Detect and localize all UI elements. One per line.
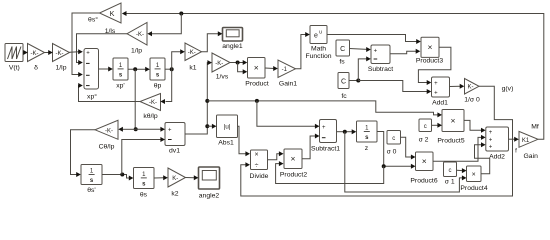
- wire Divide to Product2 input1: [268, 151, 284, 160]
- wire jog to Product input2: [238, 63, 248, 75]
- node fc junction: [356, 79, 360, 83]
- svg-text:c: c: [424, 124, 427, 130]
- wire Subtract to Product3 input2: [391, 49, 421, 54]
- node z junction: [382, 164, 386, 168]
- wire junction to 1/ls: [147, 14, 181, 37]
- svg-text:+: +: [434, 81, 438, 87]
- svg-text:÷: ÷: [255, 162, 259, 169]
- gain delta: [28, 44, 45, 72]
- svg-text:k1: k1: [189, 65, 196, 72]
- block Add1: [432, 77, 450, 107]
- block Product4: [460, 166, 487, 192]
- svg-text:c: c: [449, 168, 452, 174]
- svg-text:c: c: [392, 136, 395, 142]
- block Subtract1: [311, 120, 340, 153]
- svg-text:dv1: dv1: [169, 148, 180, 155]
- svg-text:Product2: Product2: [280, 172, 307, 179]
- block Add2: [486, 127, 509, 160]
- svg-text:V(t): V(t): [9, 65, 20, 72]
- wire thetas-deg K to sum input3: [72, 13, 100, 77]
- svg-text:k2: k2: [171, 191, 178, 198]
- wire z out to Product6 input2: [377, 132, 416, 169]
- wire k1 to angle1: [202, 31, 223, 51]
- svg-text:f: f: [515, 148, 517, 155]
- svg-text:+: +: [86, 50, 90, 56]
- block Abs1: [217, 115, 238, 146]
- svg-text:g(v): g(v): [502, 86, 514, 93]
- svg-text:+: +: [489, 145, 493, 151]
- svg-text:K-: K-: [172, 176, 178, 182]
- svg-text:σ 0: σ 0: [387, 148, 397, 155]
- wire V(t) to delta: [23, 50, 28, 55]
- svg-text:×: ×: [422, 156, 427, 166]
- wire Math to Product3 input1: [327, 35, 421, 45]
- svg-text:+: +: [374, 48, 378, 54]
- gain Gain1: [278, 60, 297, 88]
- svg-text:C: C: [341, 78, 346, 85]
- gain 1/ls (feedback): [105, 23, 147, 55]
- block Subtract: [368, 45, 393, 73]
- gain 1/sigma0: [464, 79, 480, 104]
- wire Gain1 to Math: [296, 32, 310, 69]
- svg-text:-K-: -K-: [105, 128, 113, 134]
- wire v drop to Subtract1 input1: [257, 101, 320, 129]
- wire sigma0 to Product6 input1: [401, 137, 416, 159]
- wire k2 to angle2: [186, 175, 199, 180]
- svg-text:-K-: -K-: [149, 100, 157, 106]
- svg-text:Subtract1: Subtract1: [311, 146, 340, 153]
- wire Subtract1 to z: [337, 129, 357, 134]
- svg-text:Mf: Mf: [531, 124, 539, 131]
- wire sum to xp': [99, 67, 113, 72]
- svg-text:e: e: [314, 33, 318, 40]
- svg-text:+: +: [322, 125, 326, 131]
- svg-text:Divide: Divide: [250, 173, 269, 180]
- block Product2: [280, 149, 307, 179]
- node 1/vs out junction: [236, 61, 240, 65]
- gain Mf: [515, 124, 539, 161]
- gain 1/lp: [53, 44, 70, 72]
- gain ktheta/lp: [140, 94, 161, 121]
- wire zdot to Product4 input2: [345, 132, 467, 192]
- svg-text:+: +: [434, 90, 438, 96]
- wire g(v) long loop to Divide input2: [241, 86, 513, 196]
- svg-text:σ 1: σ 1: [445, 179, 455, 186]
- svg-text:-K-: -K-: [188, 50, 196, 56]
- wire thetas to k2: [154, 175, 168, 180]
- node xp' junction: [133, 67, 137, 71]
- block Product3: [416, 37, 443, 64]
- svg-text:angle2: angle2: [199, 193, 220, 200]
- wire ktheta/lp to sum input4: [78, 83, 140, 102]
- svg-text:Subtract: Subtract: [368, 66, 393, 73]
- svg-text:×: ×: [254, 152, 258, 159]
- wire sigma2 to Product5 input2: [432, 123, 443, 128]
- svg-text:-K-: -K-: [215, 61, 223, 67]
- wire v-line to Product5: [207, 101, 442, 118]
- node thetas' junction: [120, 173, 124, 177]
- gain k2: [168, 168, 186, 198]
- svg-text:Math: Math: [311, 46, 326, 53]
- svg-text:xp°: xp°: [87, 93, 97, 101]
- constant c sigma0: [387, 131, 401, 156]
- integrator thetas': [81, 165, 102, 195]
- svg-text:-1: -1: [282, 67, 288, 73]
- svg-text:u: u: [319, 30, 322, 36]
- wire node down to ktheta/lp: [160, 69, 171, 104]
- wire xp' drop: [134, 69, 136, 129]
- wire thetap out to node: [165, 68, 172, 70]
- integrator xp': [113, 58, 128, 90]
- svg-text:Abs1: Abs1: [218, 139, 234, 146]
- svg-text:K: K: [110, 9, 115, 18]
- scope angle1: [222, 28, 243, 51]
- wire Product6 to Add2 input2: [433, 135, 486, 161]
- svg-text:xp': xp': [116, 83, 124, 90]
- block Product5: [437, 110, 464, 145]
- svg-text:1/lp: 1/lp: [131, 48, 142, 55]
- svg-text:-K-: -K-: [56, 51, 64, 57]
- svg-text:-K-: -K-: [136, 32, 144, 38]
- wire fs to Subtract: [350, 47, 371, 52]
- wire Product to Gain1: [265, 66, 278, 71]
- block dv1 sum: [165, 123, 185, 155]
- svg-text:×: ×: [291, 154, 296, 164]
- wire Product3 to Add1 input1: [418, 47, 451, 85]
- svg-text:Product4: Product4: [460, 185, 487, 192]
- node xp' lower junction: [134, 127, 138, 131]
- gain k1: [185, 43, 202, 72]
- svg-text:Add2: Add2: [489, 153, 505, 160]
- svg-text:1/lp: 1/lp: [56, 65, 67, 72]
- svg-text:×: ×: [472, 172, 476, 179]
- svg-text:×: ×: [254, 63, 259, 73]
- svg-text:Gain1: Gain1: [279, 81, 297, 88]
- wire node to k1: [172, 49, 185, 69]
- constant C fs: [336, 40, 350, 66]
- svg-text:K-: K-: [468, 85, 474, 91]
- integrator z: [357, 121, 378, 152]
- wire xp' to thetap: [128, 67, 150, 72]
- block Divide: [250, 150, 269, 180]
- wire Ctheta/lp to thetas': [71, 130, 96, 177]
- wire Product5 to Add2 input1: [464, 120, 486, 132]
- svg-text:Cθ/lp: Cθ/lp: [99, 144, 115, 151]
- svg-text:+: +: [168, 128, 172, 134]
- svg-text:|u|: |u|: [224, 123, 231, 130]
- gain thetas-deg K (top feedback): [88, 3, 121, 24]
- svg-text:θs: θs: [140, 192, 148, 199]
- svg-text:δ: δ: [34, 65, 38, 72]
- svg-text:σ 2: σ 2: [419, 137, 429, 144]
- node top junction: [179, 12, 183, 16]
- node thetap junction: [170, 67, 174, 71]
- svg-text:fc: fc: [341, 93, 347, 100]
- svg-text:Product: Product: [245, 81, 269, 88]
- node v to Subtract1 branch: [255, 99, 259, 103]
- wire delta to 1/lp: [45, 50, 53, 55]
- block Product: [245, 58, 269, 88]
- block Math Function e^u: [305, 26, 331, 61]
- svg-text:Function: Function: [305, 53, 331, 60]
- wire Product4 to Add2 input3: [475, 142, 490, 173]
- svg-text:θs': θs': [87, 187, 95, 194]
- sum xp'': [84, 49, 99, 101]
- node v-line branch: [205, 99, 209, 103]
- svg-text:θs°: θs°: [88, 16, 98, 24]
- source V(t): [5, 44, 23, 72]
- svg-text:+: +: [489, 130, 493, 136]
- svg-text:×: ×: [428, 42, 433, 52]
- scope angle2: [199, 167, 220, 200]
- svg-text:+: +: [489, 137, 493, 143]
- gain Ctheta/lp: [95, 120, 118, 150]
- svg-text:1/σ 0: 1/σ 0: [464, 97, 480, 104]
- node zdot junction: [343, 130, 347, 134]
- svg-text:z: z: [365, 145, 369, 152]
- svg-text:-K-: -K-: [31, 51, 39, 57]
- wire 1/vs out to Product: [230, 60, 247, 65]
- wire fc to Add1 input2: [358, 81, 431, 95]
- integrator thetap: [150, 58, 165, 90]
- svg-text:Product6: Product6: [410, 178, 437, 185]
- wire node to Ctheta/lp: [118, 127, 135, 132]
- constant c sigma1: [444, 162, 457, 186]
- svg-text:Gain: Gain: [524, 153, 539, 160]
- svg-text:C: C: [340, 46, 345, 53]
- constant c sigma2: [419, 119, 432, 144]
- wire Mf feedback loop (top): [122, 11, 544, 139]
- wire Add1 to 1/sigma0: [450, 84, 465, 89]
- wire 1/lp to sum input1: [70, 49, 83, 54]
- svg-text:1/vs: 1/vs: [216, 74, 229, 81]
- node Abs1 branch: [205, 124, 209, 128]
- wire fc out: [349, 80, 358, 82]
- svg-text:angle1: angle1: [222, 43, 243, 50]
- gain 1/vs: [212, 53, 230, 81]
- svg-text:Add1: Add1: [432, 100, 448, 107]
- wire thetas' riser to dv1 input2: [122, 137, 165, 175]
- wire Abs1 to Divide input1: [238, 126, 251, 156]
- constant C fc: [338, 73, 349, 101]
- wire Add2 to Mf gain: [509, 137, 519, 142]
- svg-text:Product3: Product3: [416, 58, 443, 65]
- svg-text:kθ/lp: kθ/lp: [143, 113, 158, 120]
- svg-text:Product5: Product5: [437, 138, 464, 145]
- wire to Abs1: [207, 124, 216, 129]
- svg-text:θp: θp: [154, 83, 162, 90]
- integrator thetas: [134, 168, 155, 199]
- svg-text:K1: K1: [522, 138, 530, 144]
- block Product6: [410, 152, 437, 185]
- svg-text:fs: fs: [339, 59, 345, 66]
- wire fc to Subtract input2: [358, 56, 371, 80]
- wire node to dv1 input1: [135, 127, 165, 132]
- wire dv1 out to 1/vs riser: [185, 60, 212, 134]
- wire sigma1 to Product4 input1: [457, 168, 467, 173]
- wire 1/ls to sum input2: [77, 34, 128, 65]
- wire Product2 to Subtract1 input2: [302, 134, 320, 159]
- wire thetas' out to thetas: [102, 175, 133, 181]
- svg-text:×: ×: [451, 115, 456, 125]
- wire z rail to Product2 input2: [276, 161, 384, 183]
